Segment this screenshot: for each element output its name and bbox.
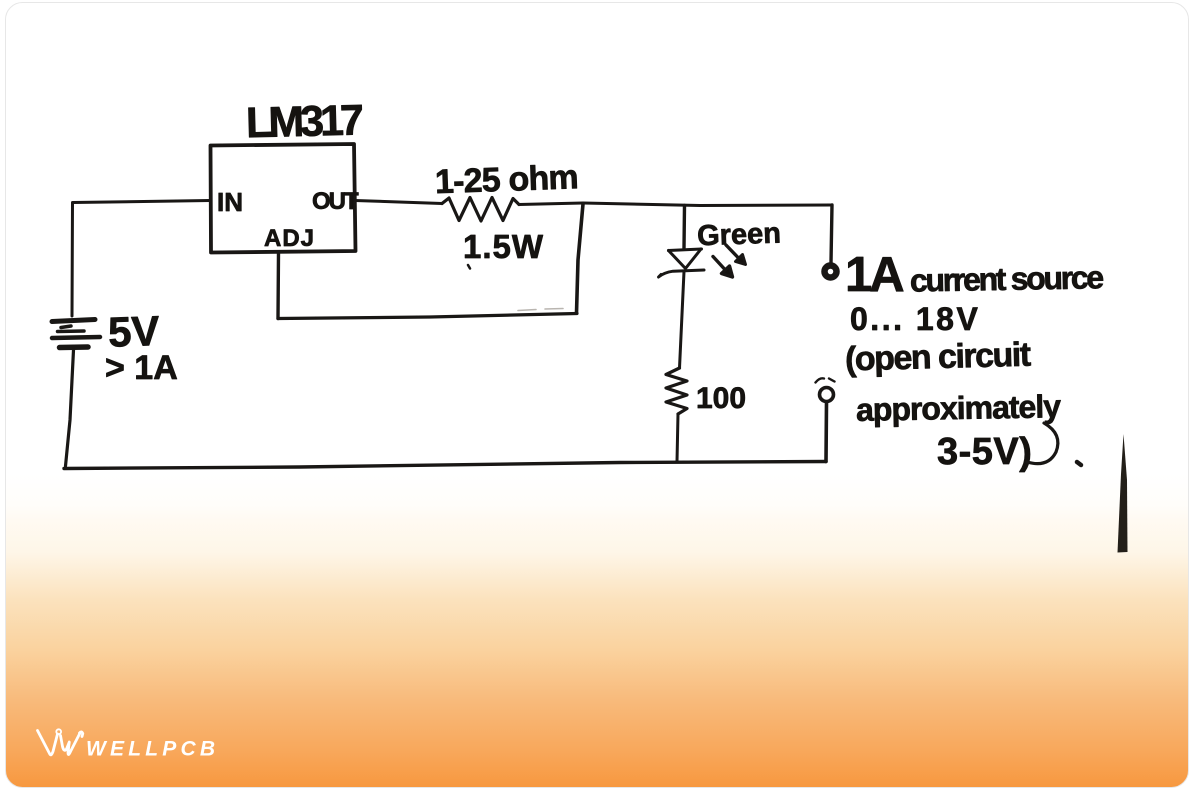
svg-text:0... 18V: 0... 18V [850, 301, 980, 337]
wellpcb logo text [86, 738, 219, 761]
annotation: 3-5V) [937, 431, 1032, 473]
resistor R1 zigzag [442, 198, 519, 222]
svg-text:Green: Green [697, 217, 782, 252]
LED color label Green [697, 217, 782, 252]
wire: terminal J2 down to bottom rail [824, 403, 828, 462]
stray pen mark (wedge) [1118, 434, 1128, 553]
resistor R2 value label 100 [696, 382, 746, 415]
svg-text:1A: 1A [845, 248, 904, 302]
wire: LED cathode to R2 [680, 272, 685, 369]
resistor R1 power label 1.5W [463, 228, 544, 265]
battery value label >1A [105, 349, 178, 387]
op-amp regulator U1 LM317 box [211, 144, 356, 253]
wire: ADJ feedback horizontal [278, 314, 577, 319]
resistor R1 value label 1-25 ohm [434, 158, 578, 201]
pin label ADJ [264, 225, 315, 252]
wellpcb logo W icon [38, 729, 83, 755]
wire: top rail corner down to terminal J1 [831, 205, 832, 263]
wire: battery - down to bottom rail [66, 350, 74, 466]
wire: ADJ pin drop [276, 252, 280, 319]
battery value label 5V [107, 307, 160, 356]
svg-text:LM317: LM317 [245, 96, 363, 147]
svg-text:1.5W: 1.5W [463, 228, 544, 265]
wire: LED anode drop [682, 206, 686, 249]
pin label IN [217, 187, 243, 217]
terminal J2 lead-in curl [816, 378, 835, 382]
wire: battery + to IN pin [72, 201, 210, 317]
annotation: 1A current source [845, 248, 1104, 302]
wire: top rail junction to LED and terminal corner [583, 203, 832, 206]
annotation period dot [1077, 462, 1081, 465]
terminal J1 (output +) [825, 266, 837, 278]
terminal J2 (output -) [820, 388, 834, 402]
annotation swoosh tail [1027, 423, 1058, 464]
svg-text:OUT: OUT [312, 188, 359, 215]
svg-text:1-25 ohm: 1-25 ohm [434, 158, 578, 201]
svg-text:current source: current source [910, 259, 1104, 298]
annotation: approximately [856, 388, 1062, 428]
wire: junction down to ADJ feedback [577, 204, 584, 313]
svg-text:IN: IN [217, 187, 243, 217]
eraser smudge [518, 309, 563, 311]
LED light arrows [713, 245, 746, 277]
wire: OUT pin to resistor R1 [355, 201, 442, 204]
bottom rail wire [64, 462, 826, 469]
annotation: 0...18V [850, 301, 980, 337]
wire: R2 to bottom rail [677, 414, 678, 462]
wire: R1 right to junction node [519, 203, 583, 205]
battery B1 [52, 320, 100, 348]
svg-text:WELLPCB: WELLPCB [86, 738, 219, 761]
svg-text:100: 100 [696, 382, 746, 415]
stray pen dot [468, 265, 470, 269]
svg-text:> 1A: > 1A [105, 349, 178, 387]
svg-text:(open circuit: (open circuit [845, 336, 1032, 379]
svg-text:approximately: approximately [856, 388, 1062, 428]
part label LM317 [245, 96, 363, 147]
LED D1 [659, 249, 705, 277]
annotation: (open circuit [845, 336, 1032, 379]
svg-text:3-5V): 3-5V) [937, 431, 1032, 473]
svg-text:ADJ: ADJ [264, 225, 315, 252]
resistor R2 zigzag [666, 368, 687, 414]
pin label OUT [312, 188, 359, 215]
